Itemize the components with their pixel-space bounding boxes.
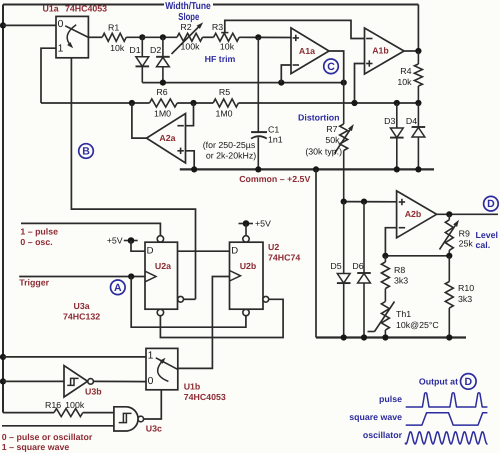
wire U1a input-1 (41, 48, 56, 103)
svg-text:Output at: Output at (419, 377, 458, 387)
diode D2 (150, 37, 170, 82)
wire A2a output loop (132, 103, 147, 138)
svg-text:D6: D6 (352, 261, 363, 271)
svg-text:Trigger: Trigger (19, 278, 49, 288)
node R6-R5 junction (190, 100, 196, 106)
wire pulse-osc control to U2a preset (21, 223, 160, 235)
label U3b (85, 386, 102, 396)
svg-text:Level: Level (476, 230, 499, 240)
wire A1b output riser (417, 5, 419, 52)
svg-text:U2a: U2a (155, 261, 171, 271)
svg-text:R7: R7 (326, 124, 337, 134)
potentiometer R7 Distortion (305, 83, 353, 202)
wire R1 to D1 junction (126, 36, 142, 38)
schmitt inverter U3b (64, 366, 93, 397)
label Common +2.5V (239, 174, 310, 184)
node D4-R4 junction (415, 100, 421, 106)
svg-text:3k3: 3k3 (394, 275, 408, 285)
label 1 square wave (2, 442, 70, 452)
svg-text:U1a: U1a (43, 4, 59, 14)
diode D3 (384, 103, 403, 169)
wire common rail (180, 168, 434, 170)
node A2a output junction (129, 100, 135, 106)
node B circled (79, 144, 94, 159)
switch U1b 74HC4053 (146, 348, 178, 389)
svg-text:10k@25°C: 10k@25°C (396, 320, 439, 330)
op-amp A2b (397, 191, 437, 238)
svg-text:D: D (147, 246, 154, 257)
wire A1b output to R4 top (404, 50, 418, 52)
diode D1 (129, 37, 149, 82)
svg-text:A1a: A1a (299, 46, 315, 56)
svg-text:R8: R8 (394, 265, 405, 275)
label U3c (146, 423, 162, 433)
svg-text:square wave: square wave (349, 412, 402, 422)
trimmer R3 10k HF trim (212, 22, 239, 52)
node D6 top junction (361, 199, 367, 205)
op-amp A1b (365, 28, 405, 74)
capacitor C1 (251, 124, 283, 144)
svg-text:100k: 100k (65, 400, 85, 410)
svg-text:or 2k-20kHz): or 2k-20kHz) (206, 151, 256, 161)
svg-text:0: 0 (58, 19, 64, 30)
svg-text:100k: 100k (180, 42, 200, 52)
wire R2 to R3 segment (203, 36, 214, 38)
svg-text:Distortion: Distortion (298, 113, 340, 123)
node common dropper junction (313, 166, 319, 172)
diode D5 (330, 202, 350, 338)
label Level cal. (476, 230, 499, 250)
svg-text:cal.: cal. (476, 240, 491, 250)
wire U1b input-1 (3, 356, 146, 358)
svg-text:74HC132: 74HC132 (63, 311, 100, 321)
svg-text:Width/Tune: Width/Tune (165, 1, 211, 12)
wire A1a inverting input stub (281, 65, 291, 83)
node D6 bottom junction (361, 334, 367, 340)
wire U1a control riser (71, 58, 195, 299)
svg-text:1M0: 1M0 (154, 108, 171, 118)
node A circled (111, 280, 126, 295)
svg-text:D3: D3 (384, 116, 395, 126)
node D2 bottom junction (160, 80, 166, 86)
node R9 bottom junction (446, 253, 452, 259)
wire left rail (2, 5, 4, 413)
wire U3c output to U1b control (144, 390, 162, 419)
wire D1-D2 segment (142, 36, 177, 38)
wire square wave control input (2, 425, 114, 427)
wire R16 to U3c (83, 412, 114, 414)
node Th1 bottom junction (382, 334, 388, 340)
node A1a output feedback junction (341, 80, 347, 86)
label 0 pulse or oscillator (2, 432, 93, 442)
svg-text:R6: R6 (156, 87, 167, 97)
wire common to bottom rail (315, 169, 317, 337)
svg-text:U1b: U1b (184, 382, 201, 392)
svg-text:3k3: 3k3 (458, 294, 472, 304)
resistor R10 (445, 256, 474, 338)
svg-text:D5: D5 (330, 261, 341, 271)
svg-text:R5: R5 (219, 87, 230, 97)
wire integrator row (41, 102, 418, 104)
svg-text:+5V: +5V (255, 218, 271, 228)
svg-text:A: A (114, 282, 122, 294)
svg-text:D4: D4 (406, 116, 417, 126)
node A2a plus on common rail (191, 166, 197, 172)
label U2 74HC74 (268, 242, 300, 262)
wire A1b noninverting input stub (355, 64, 365, 104)
wire A2b output (437, 213, 498, 215)
svg-text:50k: 50k (325, 135, 340, 145)
svg-text:R4: R4 (400, 66, 411, 76)
node U1b input-1 junction on left rail (0, 354, 6, 360)
node A1b output junction (415, 48, 421, 54)
svg-text:R2: R2 (180, 22, 191, 32)
label oscillator (363, 430, 403, 440)
power +5V to U2a D input (107, 235, 145, 251)
resistor R5 (213, 87, 238, 118)
svg-text:1: 1 (58, 44, 64, 55)
svg-text:10k: 10k (397, 77, 412, 87)
node U1a input-0 junction on left rail (0, 22, 6, 28)
node D2 top junction (160, 34, 166, 40)
svg-text:74HC4053: 74HC4053 (65, 4, 107, 14)
wire U2a Qbar stub (184, 298, 196, 300)
node R10 bottom junction (446, 334, 452, 340)
node U3b input junction on left rail (0, 378, 6, 384)
op-amp A2a (147, 114, 186, 164)
diode D6 (352, 202, 370, 338)
svg-text:1 – pulse: 1 – pulse (20, 227, 58, 237)
wire U2a Q to U2b D (178, 250, 230, 252)
label Trigger (19, 278, 49, 288)
switch U1a 74HC4053 (56, 16, 88, 57)
wire diode clamp node (142, 82, 343, 84)
svg-text:R3: R3 (212, 22, 223, 32)
wire R3 to A1a noninverting input (239, 36, 291, 38)
wire A2b noninverting input (344, 201, 397, 203)
svg-text:0 – osc.: 0 – osc. (20, 237, 52, 247)
wire A1a output (329, 51, 344, 83)
svg-text:25k: 25k (459, 239, 474, 249)
wire U1b output to U2b clock (178, 277, 230, 369)
schmitt nand U3c (114, 407, 144, 431)
svg-text:C: C (327, 61, 335, 73)
node R8 top junction (382, 253, 388, 259)
node C circled (324, 59, 339, 74)
svg-text:U3a: U3a (74, 301, 90, 311)
resistor R4 (397, 51, 422, 103)
wire U3b input (3, 380, 64, 382)
svg-text:B: B (82, 146, 90, 158)
diode D4 (406, 103, 425, 169)
svg-text:D1: D1 (129, 45, 140, 55)
node D5 bottom junction (341, 334, 347, 340)
svg-text:10k: 10k (220, 42, 235, 52)
svg-text:Th1: Th1 (396, 309, 411, 319)
label Width/Tune Slope (164, 1, 213, 23)
potentiometer R9 Level cal. (440, 214, 474, 256)
wire top rail from A1b output to left rail (3, 4, 418, 6)
svg-text:D: D (465, 376, 473, 388)
svg-text:U3b: U3b (85, 386, 102, 396)
label pulse (379, 394, 402, 404)
svg-text:1: 1 (148, 351, 154, 362)
node A1a inverting input junction (278, 80, 284, 86)
svg-text:HF trim: HF trim (205, 54, 236, 64)
resistor R6 (150, 87, 178, 118)
svg-text:10k: 10k (110, 43, 125, 53)
potentiometer R2 100k Width/Tune Slope (172, 22, 204, 54)
svg-text:R16: R16 (45, 400, 61, 410)
wire A2a inverting input stub (186, 103, 194, 126)
waveform oscillator (405, 432, 488, 444)
svg-text:1 – square wave: 1 – square wave (2, 442, 70, 452)
svg-text:1M0: 1M0 (215, 108, 232, 118)
node D3 bottom junction (394, 166, 400, 172)
wire U1a input-0 (3, 24, 56, 26)
svg-text:74HC74: 74HC74 (268, 252, 300, 262)
svg-text:0 – pulse or oscillator: 0 – pulse or oscillator (2, 432, 93, 442)
svg-text:Common – +2.5V: Common – +2.5V (239, 174, 310, 184)
wire U3b output to U1b input-0 (93, 380, 146, 382)
flip-flop U2a 74HC74 (145, 236, 184, 316)
resistor R1 (102, 23, 126, 53)
svg-text:R9: R9 (459, 229, 470, 239)
label U1a 74HC4053 (43, 4, 108, 14)
resistor R16 (45, 400, 85, 417)
flip-flop U2b 74HC74 (230, 236, 269, 316)
thermistor Th1 (368, 302, 440, 338)
resistor R8 (381, 256, 408, 302)
power +5V to U2b preset (239, 218, 272, 235)
wire C1 top lead (257, 37, 259, 132)
svg-text:(30k typ.): (30k typ.) (305, 147, 342, 157)
label pulse-osc control (20, 227, 58, 247)
wire A2a noninverting input stub (186, 151, 195, 170)
svg-text:Slope: Slope (178, 12, 199, 23)
svg-text:U3c: U3c (146, 423, 162, 433)
svg-text:U2b: U2b (240, 261, 257, 271)
wire A2b inverting feedback (385, 228, 396, 256)
node A2b output junction (446, 211, 452, 217)
wire Trigger to U2b clear (131, 277, 246, 328)
label HF trim (205, 54, 236, 64)
label square wave (349, 412, 402, 422)
svg-text:A2a: A2a (159, 133, 175, 143)
svg-text:U2: U2 (268, 242, 279, 252)
svg-text:pulse: pulse (379, 394, 402, 404)
svg-text:+5V: +5V (107, 235, 123, 245)
label U3a 74HC132 (63, 301, 100, 321)
label Output at D (419, 374, 476, 390)
node R7-D5 junction (341, 199, 347, 205)
node C1 bottom junction (255, 166, 261, 172)
svg-text:oscillator: oscillator (363, 430, 403, 440)
wire C1 bottom lead (257, 137, 259, 169)
svg-text:R10: R10 (458, 283, 474, 293)
label for 250-25us (203, 140, 256, 160)
wire left rail to R16 (3, 412, 54, 414)
svg-text:D2: D2 (150, 45, 161, 55)
svg-text:0: 0 (148, 376, 154, 387)
wire U2b Qbar to U2a clear (160, 299, 283, 337)
svg-text:A2b: A2b (405, 209, 422, 219)
label U1b 74HC4053 (184, 382, 226, 402)
wire U1a common output (88, 36, 102, 38)
svg-text:(for 250-25µs: (for 250-25µs (203, 140, 256, 150)
svg-text:74HC4053: 74HC4053 (184, 392, 226, 402)
node D circled output (484, 196, 499, 211)
node D3 top junction (394, 100, 400, 106)
node C1 top junction (255, 34, 261, 40)
wire R3 wiper to A1b inverting input (225, 20, 365, 38)
waveform pulse (406, 393, 488, 407)
wire Trigger input (19, 276, 145, 278)
node A1b noninverting junction (351, 100, 357, 106)
node D1 top junction (139, 34, 145, 40)
svg-text:D: D (231, 246, 238, 257)
svg-text:R1: R1 (108, 23, 119, 33)
op-amp A1a (291, 28, 329, 74)
svg-text:D: D (487, 198, 495, 210)
svg-text:1n1: 1n1 (268, 135, 283, 145)
node D4 bottom junction (415, 166, 421, 172)
svg-text:A1b: A1b (372, 46, 389, 56)
wire R8-R9 row (385, 255, 449, 257)
label Distortion (298, 113, 340, 123)
wire bottom rail (316, 336, 466, 338)
svg-text:C1: C1 (268, 124, 279, 134)
node Trigger junction (128, 273, 134, 279)
waveform square wave (406, 413, 488, 425)
